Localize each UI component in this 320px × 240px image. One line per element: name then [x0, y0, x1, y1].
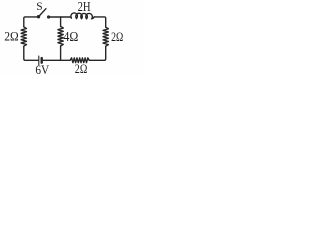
wire top-left segment — [24, 17, 38, 27]
svg-text:2Ω: 2Ω — [4, 29, 19, 44]
svg-text:6V: 6V — [35, 62, 49, 75]
switch S right contact — [48, 16, 50, 18]
wire switch to coil — [50, 17, 72, 18]
wire middle branch top — [60, 17, 62, 26]
inductor L1 2H coil — [71, 13, 94, 19]
resistor R1 2ohm left zigzag — [21, 27, 26, 46]
svg-text:4Ω: 4Ω — [63, 29, 78, 44]
resistor R4 2ohm bottom zigzag — [70, 58, 89, 63]
switch S lever — [39, 9, 46, 17]
svg-text:2H: 2H — [78, 0, 91, 14]
svg-text:S: S — [36, 0, 42, 13]
switch S left pivot — [38, 16, 40, 18]
wire right-bottom segment — [89, 46, 106, 60]
wire left-bottom segment — [24, 46, 38, 60]
wire coil to top-right corner — [94, 17, 106, 27]
resistor R3 2ohm right zigzag — [103, 27, 108, 46]
resistor R2 4ohm zigzag — [58, 26, 63, 46]
battery V1 long plate — [38, 56, 40, 65]
wire middle branch bottom — [60, 46, 62, 60]
wire bottom middle segment — [43, 59, 70, 61]
battery V1 short plate — [41, 58, 43, 63]
svg-text:2Ω: 2Ω — [75, 61, 88, 75]
svg-text:2Ω: 2Ω — [111, 30, 123, 44]
